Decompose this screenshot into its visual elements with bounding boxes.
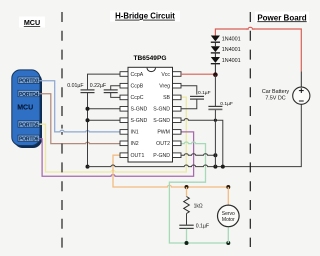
svg-text:PORTD6: PORTD6 (19, 137, 39, 143)
MCU block body (12, 70, 40, 146)
svg-text:OUT2: OUT2 (156, 141, 170, 147)
capacitor C3 0.1uF (190, 96, 204, 99)
port PORTD6 (18, 135, 40, 143)
svg-text:TB6549PG: TB6549PG (134, 55, 167, 62)
pin 2 CcpB (120, 83, 144, 89)
port PORTD5 (18, 121, 40, 129)
junction node S-GND 4 (86, 107, 90, 111)
wire D1 to D2 (214, 42, 216, 46)
wire R1 to cap C5 (186, 214, 188, 225)
wire D3 to power node (214, 64, 216, 75)
pin 12 S-GND (153, 118, 181, 124)
resistor R1 top lead (orange) (186, 187, 188, 197)
section divider dashed line right (249, 12, 251, 247)
svg-text:0.1µF: 0.1µF (196, 223, 209, 229)
wire to S-GND pin 5 (88, 119, 121, 121)
pin 13 S-GND (153, 107, 181, 113)
wire CcpA to cap C1 (88, 74, 121, 89)
svg-text:P-GND: P-GND (153, 153, 170, 159)
wire C1 to ground bus vertical (87, 93, 89, 167)
svg-text:Motor: Motor (222, 217, 235, 223)
pin 15 Vreg (159, 83, 181, 89)
wire Vcc to power node (red) (181, 73, 215, 75)
svg-text:0.01µF: 0.01µF (67, 83, 83, 89)
svg-text:0.22µF: 0.22µF (90, 83, 106, 89)
svg-text:1kΩ: 1kΩ (194, 203, 203, 209)
wire Vreg to cap C3 (181, 86, 197, 95)
capacitor C1 0.01uF (81, 90, 95, 93)
svg-text:PWM: PWM (157, 130, 170, 136)
svg-text:S-GND: S-GND (153, 118, 170, 124)
MCU U-block shadow (14, 72, 42, 148)
pin 1 CcpA (120, 72, 144, 78)
pin 10 OUT2 (156, 141, 181, 147)
wire CcpB to cap C2 (111, 86, 120, 90)
wire C4 to ground bus (214, 110, 216, 167)
junction node servo rail left (185, 185, 189, 189)
wire OUT1 to servo rail (orange) (113, 155, 228, 187)
wire blue hop over divider redraw (60, 130, 64, 132)
wire S-GND pin 12 to ground vertical (181, 119, 223, 167)
svg-text:S-GND: S-GND (153, 107, 170, 113)
IC notch (147, 68, 156, 72)
section label H-Bridge Circuit (110, 11, 180, 22)
junction node ground bus 2 (221, 165, 225, 169)
wire PORTD3 to IN1 (blue) (40, 81, 121, 132)
capacitor C5 0.1uF (179, 225, 193, 228)
diode D2 1N4001 (211, 46, 241, 53)
section label MCU (19, 17, 45, 28)
svg-text:1N4001: 1N4001 (222, 58, 241, 64)
wire to S-GND pin 4 (88, 108, 121, 110)
ground bus (88, 105, 302, 167)
pin 3 CcpC (120, 95, 144, 101)
IC U1 TB6549PG body (128, 67, 173, 162)
svg-text:IN1: IN1 (131, 130, 139, 136)
svg-text:H-Bridge Circuit: H-Bridge Circuit (115, 12, 175, 21)
svg-text:CcpC: CcpC (131, 95, 144, 101)
wire battery top lead (300, 71, 302, 87)
pin 5 S-GND (120, 118, 147, 124)
svg-text:7.5V DC: 7.5V DC (265, 95, 285, 101)
pin 8 OUT1 (120, 153, 144, 159)
svg-text:S-GND: S-GND (131, 107, 148, 113)
svg-text:IN2: IN2 (131, 141, 139, 147)
svg-text:S-GND: S-GND (131, 118, 148, 124)
svg-text:0.1µF: 0.1µF (198, 90, 211, 96)
pin 9 P-GND (153, 153, 181, 159)
wire red hop over divider redraw (248, 27, 252, 29)
svg-text:MCU: MCU (17, 105, 33, 112)
wire PORTD6 to PWM (purple) (40, 132, 194, 176)
wire power node to cap C4 (214, 75, 216, 106)
junction node ground bus 1 (213, 165, 217, 169)
wire OUT2 to servo bottom rail (green) (169, 142, 228, 243)
svg-text:PORTD4: PORTD4 (19, 92, 39, 98)
junction node Vcc power (213, 72, 218, 77)
resistor R1 1k (184, 197, 190, 214)
svg-text:PORTD5: PORTD5 (19, 122, 39, 128)
svg-text:Vcc: Vcc (161, 72, 170, 78)
junction node ground bus corner (86, 165, 90, 169)
svg-text:MCU: MCU (24, 18, 40, 27)
pin 16 Vcc (161, 72, 181, 78)
wire C3 to S-GND pin 13 (181, 100, 197, 109)
junction node bottom rail left (185, 241, 189, 245)
diode D1 1N4001 (211, 36, 241, 43)
svg-text:CcpA: CcpA (131, 72, 144, 78)
section label Power Board (255, 12, 309, 23)
svg-text:0.1µF: 0.1µF (220, 101, 233, 107)
pin 7 IN2 (120, 141, 139, 147)
diode D3 1N4001 (211, 57, 241, 64)
wire PORTD4 to IN2 (brown) (40, 94, 121, 144)
svg-text:Car Battery: Car Battery (262, 89, 290, 95)
servo motor M1 (218, 187, 240, 243)
wire PORTD5 to SB (yellow) (40, 97, 187, 172)
port PORTD3 (18, 77, 40, 85)
wire C2 to CcpC (111, 93, 120, 97)
svg-text:OUT1: OUT1 (131, 153, 145, 159)
junction node S-GND 5 (86, 118, 90, 122)
pin 11 PWM (157, 130, 181, 136)
junction node servo rail right (226, 185, 230, 189)
svg-text:CcpB: CcpB (131, 84, 144, 90)
port PORTD4 (18, 90, 40, 98)
junction node P-GND (213, 153, 217, 157)
wire C5 to bottom rail (green) (186, 229, 188, 243)
svg-text:Power Board: Power Board (257, 13, 306, 22)
pin 6 IN1 (120, 130, 139, 136)
svg-text:Vreg: Vreg (159, 84, 170, 90)
battery B1 (293, 87, 310, 104)
svg-text:1N4001: 1N4001 (222, 36, 241, 42)
pin 14 SB (163, 95, 181, 101)
power feed red rail (215, 27, 301, 71)
svg-text:SB: SB (163, 95, 170, 101)
capacitor C2 0.22uF (104, 90, 118, 93)
capacitor C4 0.1uF (208, 106, 222, 109)
svg-text:PORTD3: PORTD3 (19, 79, 39, 85)
pin 4 S-GND (120, 107, 147, 113)
wire P-GND to power ground (181, 154, 215, 156)
junction node at cap lead (214, 119, 217, 122)
wire D2 to D3 (214, 53, 216, 57)
section divider dashed line left (61, 12, 63, 249)
svg-text:1N4001: 1N4001 (222, 47, 241, 53)
junction node bottom rail right (226, 241, 230, 245)
